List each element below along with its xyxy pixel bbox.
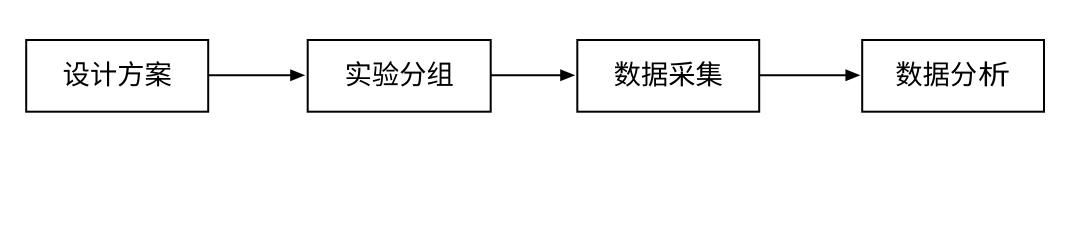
process box 4 (数据分析) [862,40,1044,112]
process box 1 (设计方案) [26,40,208,112]
label 设计方案 [64,61,171,86]
arrow connector 2 [491,69,576,81]
process box 3 (数据采集) [577,40,759,112]
label 数据分析 [896,61,1008,86]
arrow connector 3 [759,69,860,81]
label 数据采集 [615,61,722,86]
arrow connector 1 [208,69,305,81]
process box 2 (实验分组) [308,40,491,112]
label 实验分组 [347,61,453,86]
